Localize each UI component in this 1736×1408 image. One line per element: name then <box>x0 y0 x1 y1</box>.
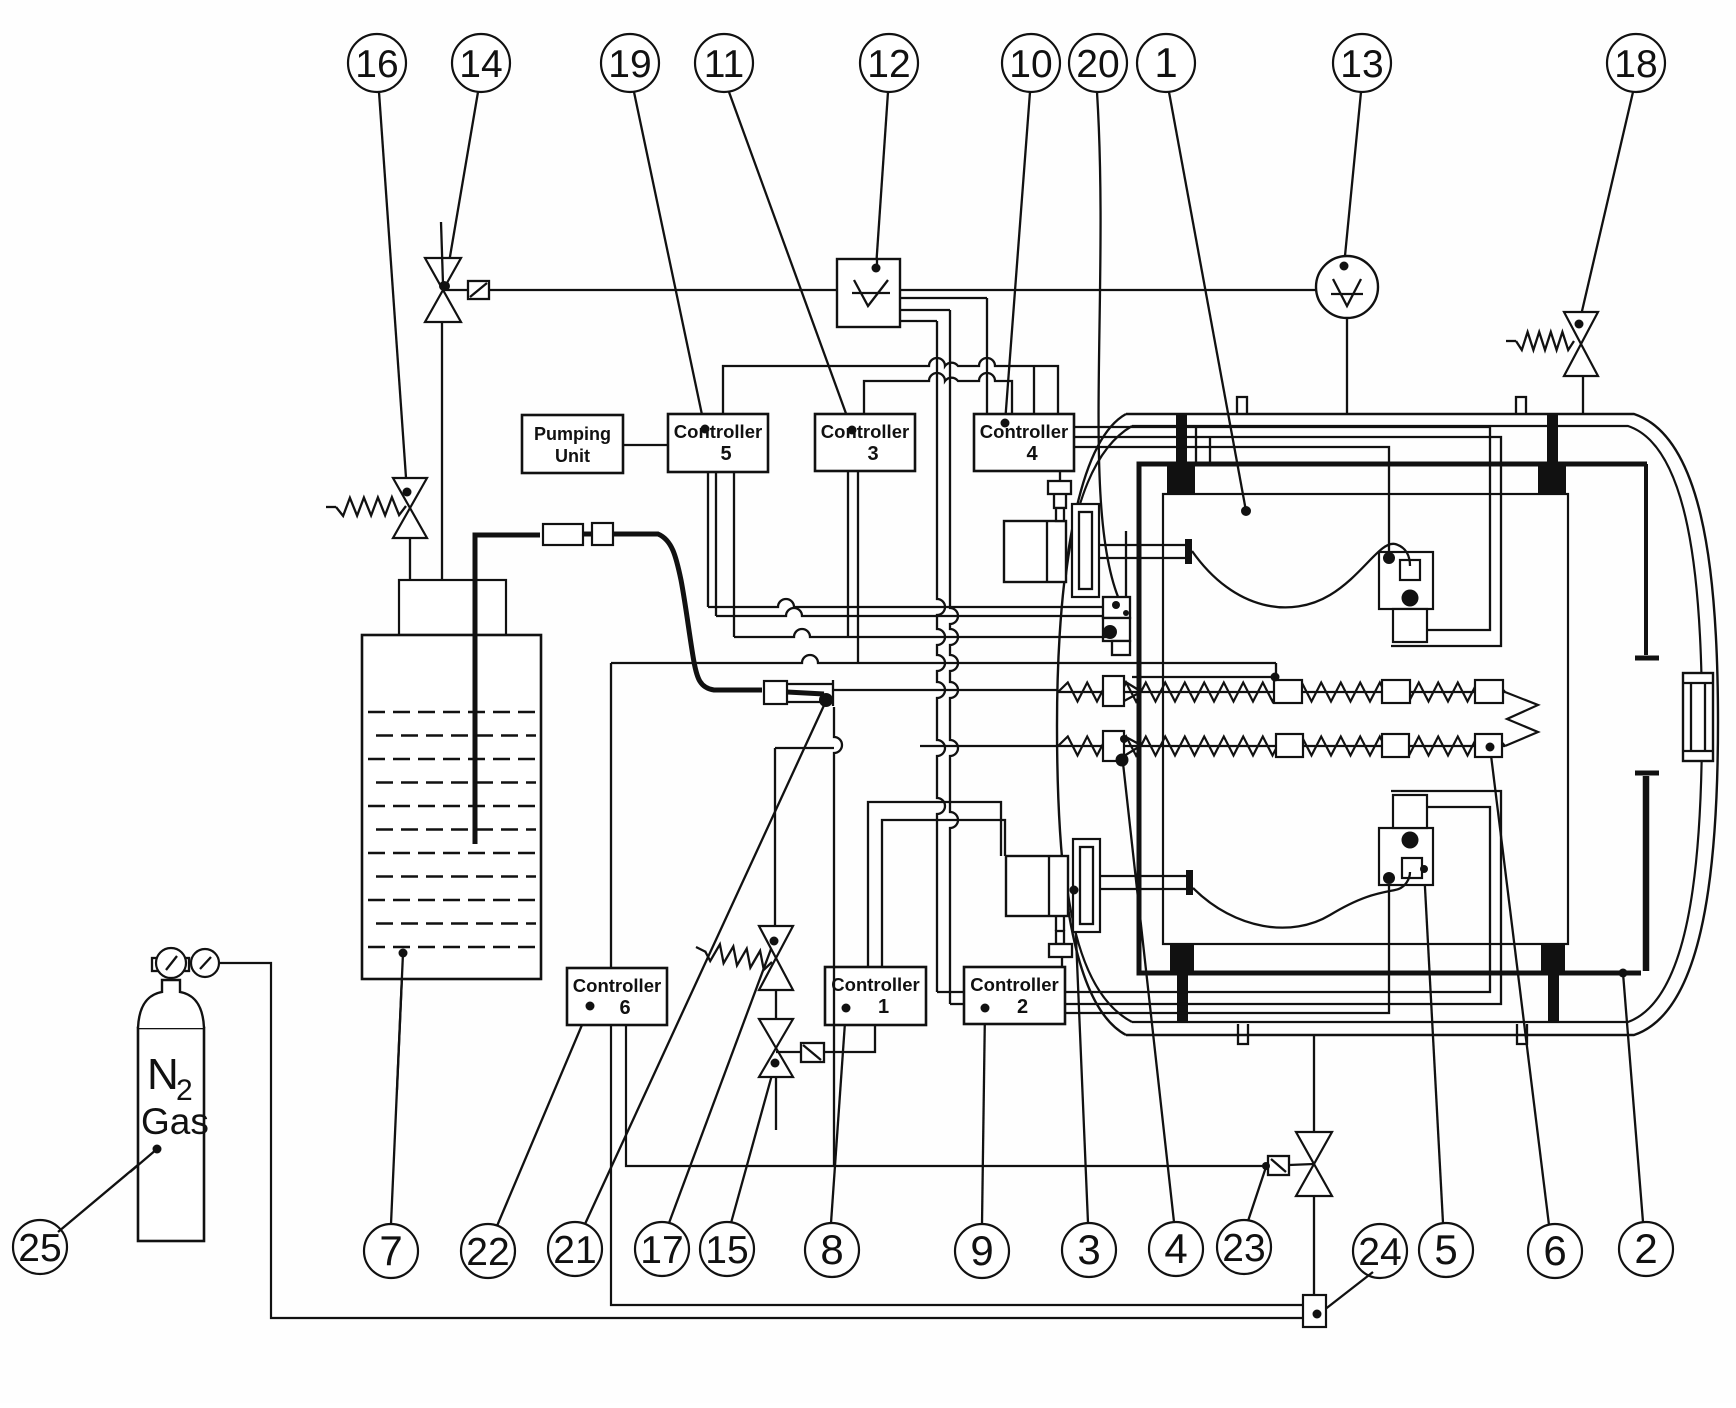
heater feedthrough lower <box>1103 731 1124 761</box>
N2 feed line <box>219 963 1303 1318</box>
svg-text:Controller: Controller <box>980 421 1068 442</box>
balloon 8 <box>805 1223 859 1277</box>
top motor <box>1004 521 1066 582</box>
leader line 16 <box>379 92 407 492</box>
balloon 24 <box>1353 1224 1407 1278</box>
feedthrough bar top-right <box>1547 413 1558 464</box>
balloon 7 <box>364 1224 418 1278</box>
injector drop line <box>834 707 842 1165</box>
leader line 23 <box>1248 1167 1266 1221</box>
tank body <box>362 635 541 979</box>
wire c4 a <box>1074 427 1490 630</box>
solenoid box valve 14 <box>468 281 489 299</box>
wires ctrl1 to motor <box>868 802 1001 967</box>
balloon 20 <box>1069 34 1127 92</box>
shield inner liner box <box>1163 494 1568 944</box>
leader line 13 <box>1344 92 1361 266</box>
pipe to valve 17 <box>775 747 834 749</box>
balloon 16 <box>348 34 406 92</box>
pipe connector <box>764 681 787 704</box>
svg-text:Controller: Controller <box>573 975 661 996</box>
bottom sensor cable <box>1193 872 1410 928</box>
svg-text:3: 3 <box>1077 1226 1100 1273</box>
svg-text:4: 4 <box>1164 1225 1187 1272</box>
svg-text:Unit: Unit <box>555 446 590 466</box>
balloon 4 <box>1149 1222 1203 1276</box>
heater dot 6 <box>1486 743 1495 752</box>
leader line 8 <box>831 1008 846 1223</box>
svg-text:19: 19 <box>608 43 651 86</box>
balloon 12 <box>860 34 918 92</box>
wire c4 c <box>1074 447 1389 552</box>
svg-text:Controller: Controller <box>674 421 762 442</box>
pipe valve14 down to tank <box>441 322 443 580</box>
pipe valve18 to vessel <box>1582 376 1584 413</box>
valve 24 <box>1296 1132 1332 1196</box>
wire c4 b <box>1074 437 1501 646</box>
svg-text:Controller: Controller <box>821 421 909 442</box>
controller 2 box <box>964 967 1065 1024</box>
wire ctrl5 top <box>723 358 1058 414</box>
viewport window <box>1683 673 1713 761</box>
balloon 2 <box>1619 1222 1673 1276</box>
leader 25 dot redraw <box>130 1149 157 1172</box>
leader line 19 <box>634 92 705 429</box>
lower heater element <box>1058 737 1505 756</box>
leader line 10 <box>1005 92 1030 423</box>
balloon 10 <box>1002 34 1060 92</box>
leader line 2 <box>1623 973 1643 1222</box>
leader line 3 <box>1074 890 1088 1223</box>
gauge12 wire pair <box>900 297 987 299</box>
relief valve 18 <box>1564 312 1598 376</box>
svg-text:22: 22 <box>466 1231 509 1274</box>
wire gauge13 to vessel <box>1346 318 1348 413</box>
pipe valve24 to junction box <box>1313 1196 1315 1295</box>
lower electrode <box>1643 776 1650 971</box>
valve 14 <box>425 258 461 322</box>
top sensor box <box>1379 552 1433 609</box>
wire gauge12 to gauge13 <box>900 289 1317 291</box>
cylinder regulator <box>152 958 189 971</box>
balloon 13 <box>1333 34 1391 92</box>
controller 1 box <box>825 967 926 1025</box>
leader line 18 <box>1579 92 1633 324</box>
balloon 19 <box>601 34 659 92</box>
leader line 7 <box>391 953 403 1224</box>
heater support box upper <box>1475 680 1503 703</box>
feedthrough bar top-left <box>1176 413 1187 464</box>
pipe vessel to valve 24 <box>1313 1035 1315 1132</box>
gauge 13 <box>1316 256 1378 318</box>
controller 5 box <box>668 414 768 472</box>
ctrl6 pipe down-left <box>610 663 612 968</box>
top motor solenoid <box>1059 471 1061 481</box>
svg-text:1: 1 <box>1154 39 1177 86</box>
svg-text:23: 23 <box>1222 1227 1265 1270</box>
gas manifold boxes <box>1103 597 1130 618</box>
svg-text:6: 6 <box>619 997 630 1019</box>
balloon 3 <box>1062 1223 1116 1277</box>
svg-text:9: 9 <box>970 1227 993 1274</box>
heater support box lower <box>1475 734 1502 757</box>
spring of relief valve 16 <box>336 497 406 516</box>
valve 15 <box>775 990 777 1019</box>
svg-text:7: 7 <box>379 1227 402 1274</box>
bottom motor flange <box>1073 839 1100 932</box>
svg-text:20: 20 <box>1076 43 1119 86</box>
balloon 25 <box>13 1220 67 1274</box>
leader line 9 <box>982 1008 985 1224</box>
leader line 6 <box>1490 747 1549 1225</box>
svg-text:3: 3 <box>867 443 878 465</box>
svg-text:10: 10 <box>1009 43 1052 86</box>
leader line 4 <box>1123 763 1174 1222</box>
vessel bottom tab A <box>1238 1024 1248 1044</box>
svg-text:17: 17 <box>640 1229 683 1272</box>
heater dot upper-mid <box>1271 673 1280 682</box>
top motor shaft <box>1099 544 1185 546</box>
balloon 5 <box>1419 1223 1473 1277</box>
heater feedthrough upper <box>1103 676 1124 706</box>
injector nozzle dot (21) <box>819 693 833 707</box>
spring of relief valve 18 <box>1516 332 1574 350</box>
balloon 21 <box>548 1222 602 1276</box>
heater thermocouple wire <box>1132 676 1275 678</box>
svg-text:25: 25 <box>18 1227 61 1270</box>
svg-text:2: 2 <box>1634 1225 1657 1272</box>
shield feed drops <box>1195 427 1197 463</box>
balloon 23 <box>1217 1220 1271 1274</box>
controller 3 box <box>815 414 915 471</box>
wire ctrl3 top <box>864 373 1012 414</box>
balloon 22 <box>461 1224 515 1278</box>
vessel top tab A <box>1237 397 1247 413</box>
svg-text:8: 8 <box>820 1226 843 1273</box>
pipe relief valve to tank neck <box>409 538 411 580</box>
leader line 17 <box>669 941 774 1223</box>
svg-text:13: 13 <box>1340 43 1383 86</box>
svg-text:18: 18 <box>1614 43 1657 86</box>
tank neck <box>399 580 506 635</box>
leader line 20 <box>1097 92 1122 606</box>
leader line 1 <box>1169 92 1246 511</box>
gas line to upper heater <box>833 689 1058 691</box>
wire c2 a <box>1065 807 1490 992</box>
leader 3 dot <box>1070 886 1079 895</box>
leader line 22 <box>497 1006 590 1226</box>
heater support box lower <box>1382 734 1409 757</box>
vessel top tab B <box>1516 397 1526 413</box>
pumping unit box <box>522 415 623 473</box>
wire c2 c <box>1065 884 1389 1013</box>
solenoid box valve 15 <box>801 1043 824 1062</box>
svg-text:5: 5 <box>720 443 731 465</box>
svg-text:14: 14 <box>459 43 502 86</box>
svg-text:Pumping: Pumping <box>534 424 611 444</box>
leader line 21 <box>585 701 826 1224</box>
vessel bottom tab B <box>1517 1024 1527 1044</box>
svg-text:11: 11 <box>704 43 745 86</box>
relief valve 16 <box>393 478 427 538</box>
svg-text:Gas: Gas <box>141 1101 209 1142</box>
upper electrode <box>1644 464 1648 655</box>
svg-text:24: 24 <box>1358 1231 1401 1274</box>
svg-text:2: 2 <box>1017 996 1028 1018</box>
bundle wire y616 <box>715 472 717 616</box>
gauge 12 box <box>837 259 900 327</box>
upper heater element <box>1058 683 1505 702</box>
controller 6 box <box>567 968 667 1025</box>
bottom motor shaft <box>1100 875 1186 877</box>
leader line 24 <box>1319 1272 1373 1314</box>
balloon 9 <box>955 1224 1009 1278</box>
thick transfer pipe <box>475 535 540 537</box>
tank dip tube <box>473 535 478 844</box>
thermocouple dot upper heater <box>1120 735 1128 743</box>
N2 gas cylinder <box>138 1028 204 1241</box>
heat shield thick box <box>1139 464 1647 973</box>
svg-text:5: 5 <box>1434 1226 1457 1273</box>
top sensor cable <box>1192 544 1410 608</box>
leader 7 dot redraw <box>397 953 403 1090</box>
balloon 11 <box>695 34 753 92</box>
leader line 14 <box>445 92 478 286</box>
top motor flange <box>1072 504 1099 597</box>
junction box 24 <box>1303 1295 1326 1327</box>
wire valve14 to gauge12 <box>489 289 837 291</box>
balloon 1 <box>1137 34 1195 92</box>
leader line 15 <box>731 1064 775 1223</box>
wire c2 b <box>1065 791 1501 1004</box>
svg-text:6: 6 <box>1543 1227 1566 1274</box>
spring of valve 17 <box>705 944 772 970</box>
balloon 15 <box>700 1222 754 1276</box>
injector sleeve <box>787 680 833 706</box>
solenoid box 23 <box>1268 1156 1289 1175</box>
svg-text:Controller: Controller <box>831 974 919 995</box>
balloon 18 <box>1607 34 1665 92</box>
svg-text:15: 15 <box>705 1229 748 1272</box>
heater support box lower <box>1276 734 1303 757</box>
svg-text:4: 4 <box>1026 443 1038 465</box>
bundle wire y637 <box>733 472 735 637</box>
feedthrough bar bottom-left <box>1170 944 1194 974</box>
leader line 11 <box>729 92 852 430</box>
heater right fold <box>1505 692 1538 746</box>
svg-text:1: 1 <box>878 996 889 1018</box>
leader line 5 <box>1424 869 1443 1223</box>
valve 17 <box>759 926 793 990</box>
bundle wire y607 <box>707 472 709 607</box>
leader line 25 <box>58 1149 157 1232</box>
feedthrough bar bottom-right <box>1541 944 1565 972</box>
bottom sensor box <box>1379 828 1433 885</box>
bottom motor solenoid <box>1056 916 1064 931</box>
bundle wire y663 <box>611 655 1276 663</box>
svg-text:16: 16 <box>355 43 398 86</box>
heater support box upper <box>1382 680 1410 703</box>
balloon 6 <box>1528 1224 1582 1278</box>
balloon 17 <box>635 1222 689 1276</box>
thermocouple dot lower heater <box>1116 754 1129 767</box>
svg-text:Controller: Controller <box>970 974 1058 995</box>
vessel inner wall <box>1132 426 1702 1022</box>
svg-text:N: N <box>147 1050 179 1099</box>
pumping unit to controller5 wire <box>623 444 668 446</box>
leader line 12 <box>876 92 888 268</box>
heater support box upper <box>1274 680 1302 703</box>
svg-text:21: 21 <box>553 1229 596 1272</box>
svg-text:12: 12 <box>867 43 910 86</box>
tank liquid dashes <box>368 712 536 947</box>
bottom motor <box>1006 856 1068 916</box>
controller 4 box <box>974 414 1074 471</box>
vessel outer shell <box>1126 414 1718 1035</box>
balloon 14 <box>452 34 510 92</box>
